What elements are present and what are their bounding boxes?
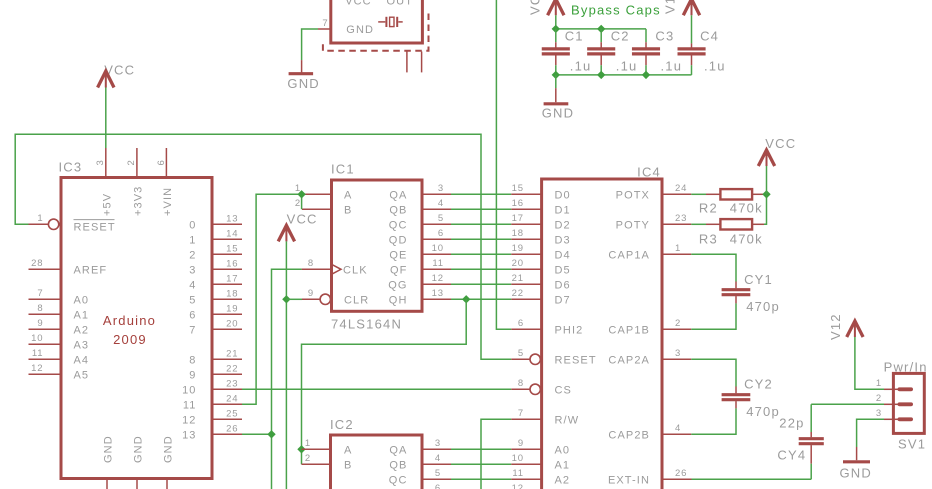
svg-text:R2: R2	[699, 201, 718, 216]
svg-text:470p: 470p	[746, 404, 780, 419]
oscillator OU1	[331, 0, 423, 43]
svg-text:10: 10	[31, 333, 43, 344]
svg-text:AREF: AREF	[74, 264, 108, 276]
svg-text:6: 6	[435, 483, 441, 489]
wire: EXT-IN to CY4	[692, 478, 812, 480]
svg-text:CAP2A: CAP2A	[608, 354, 650, 366]
svg-text:+3V3: +3V3	[132, 186, 144, 216]
svg-text:470k: 470k	[730, 201, 763, 216]
svg-text:7: 7	[189, 324, 196, 336]
IC3 right pins digital 8-13	[182, 348, 242, 441]
svg-text:QB: QB	[389, 459, 407, 471]
svg-text:IC2: IC2	[330, 417, 354, 432]
svg-text:7: 7	[518, 408, 524, 419]
svg-text:10: 10	[182, 384, 196, 396]
svg-text:RESET: RESET	[555, 354, 597, 366]
svg-text:GND: GND	[287, 76, 320, 91]
svg-text:QC: QC	[389, 474, 408, 486]
svg-text:A1: A1	[74, 309, 90, 321]
IC3 top pin names	[101, 186, 174, 216]
svg-text:21: 21	[512, 273, 524, 284]
svg-text:D1: D1	[555, 204, 571, 216]
svg-text:.1u: .1u	[704, 59, 726, 74]
svg-text:9: 9	[189, 369, 196, 381]
capacitor C3 .1u	[632, 29, 682, 75]
svg-text:.1u: .1u	[616, 59, 638, 74]
junction CLK/D13	[267, 430, 275, 438]
svg-text:7: 7	[37, 288, 43, 299]
junction QH branch	[462, 295, 470, 303]
svg-text:24: 24	[226, 393, 238, 404]
svg-text:D6: D6	[555, 279, 571, 291]
svg-text:A1: A1	[555, 459, 571, 471]
svg-text:GND: GND	[163, 435, 175, 463]
svg-text:PHI2: PHI2	[555, 324, 584, 336]
svg-text:3: 3	[675, 348, 681, 359]
svg-text:A: A	[344, 444, 352, 456]
svg-text:CAP2B: CAP2B	[608, 429, 650, 441]
svg-text:15: 15	[512, 183, 524, 194]
svg-text:8: 8	[37, 303, 43, 314]
IC4 right pins	[608, 183, 692, 486]
svg-text:13: 13	[432, 288, 444, 299]
svg-text:11: 11	[432, 258, 444, 269]
capacitor C1 .1u	[542, 29, 592, 75]
IC2 74LS164N	[330, 417, 422, 489]
svg-text:4: 4	[438, 198, 444, 209]
svg-text:21: 21	[226, 348, 238, 359]
svg-text:3: 3	[95, 159, 106, 165]
VCC symbol (left, to IC3 +5V)	[98, 63, 136, 88]
svg-text:0: 0	[189, 219, 196, 231]
svg-text:3: 3	[435, 438, 441, 449]
ground (SV1)	[840, 447, 873, 481]
svg-text:2009: 2009	[113, 332, 147, 347]
svg-text:12: 12	[31, 363, 43, 374]
svg-text:QH: QH	[389, 294, 408, 306]
svg-text:9: 9	[518, 438, 524, 449]
svg-text:6: 6	[156, 159, 167, 165]
svg-text:23: 23	[226, 378, 238, 389]
IC3 top pin stubs (3,2,6)	[106, 148, 167, 178]
svg-text:1: 1	[305, 438, 311, 449]
svg-text:GND: GND	[840, 466, 873, 481]
svg-text:6: 6	[518, 318, 524, 329]
svg-text:A2: A2	[555, 474, 571, 486]
svg-text:1: 1	[189, 234, 196, 246]
svg-text:C3: C3	[655, 29, 674, 44]
svg-text:9: 9	[308, 288, 314, 299]
svg-text:VCC: VCC	[287, 212, 318, 227]
IC4 SID	[542, 165, 662, 489]
svg-text:VCC: VCC	[765, 136, 796, 151]
svg-text:22p: 22p	[779, 416, 804, 431]
svg-text:20: 20	[512, 258, 524, 269]
svg-text:GND: GND	[346, 24, 374, 36]
ground (oscillator)	[287, 60, 320, 91]
svg-text:A0: A0	[555, 444, 571, 456]
crystal symbol	[378, 17, 403, 27]
svg-text:A4: A4	[74, 354, 90, 366]
IC4 pin PHI2	[511, 318, 583, 336]
svg-text:23: 23	[675, 213, 687, 224]
svg-text:1: 1	[37, 213, 43, 224]
svg-text:12: 12	[182, 414, 196, 426]
svg-text:19: 19	[226, 303, 238, 314]
svg-text:12: 12	[432, 273, 444, 284]
junction C1 top	[552, 25, 560, 33]
svg-text:IC4: IC4	[637, 165, 661, 180]
svg-text:A2: A2	[74, 324, 90, 336]
oscillator bottom stubs	[407, 52, 422, 73]
svg-text:74LS164N: 74LS164N	[331, 317, 402, 332]
svg-text:CLK: CLK	[343, 264, 368, 276]
svg-text:470p: 470p	[746, 299, 780, 314]
svg-text:16: 16	[226, 258, 238, 269]
ground (bypass)	[542, 88, 575, 120]
svg-text:10: 10	[432, 243, 444, 254]
svg-text:26: 26	[226, 423, 238, 434]
svg-text:5: 5	[189, 294, 196, 306]
svg-text:QA: QA	[389, 189, 407, 201]
svg-text:24: 24	[675, 183, 687, 194]
svg-text:EXT-IN: EXT-IN	[608, 474, 650, 486]
svg-text:5: 5	[518, 348, 524, 359]
junction IC2 A/B	[297, 445, 305, 453]
svg-text:GND: GND	[133, 435, 145, 463]
svg-text:GND: GND	[542, 106, 575, 121]
svg-text:22: 22	[226, 363, 238, 374]
svg-text:25: 25	[226, 408, 238, 419]
wire: VCC to C1	[555, 15, 557, 29]
capacitor CY2 470p	[691, 359, 780, 434]
capacitor C4 .1u	[678, 15, 726, 75]
svg-text:9: 9	[37, 318, 43, 329]
svg-text:CY1: CY1	[744, 272, 773, 287]
svg-text:3: 3	[876, 408, 882, 419]
wire: CLR branch	[286, 298, 302, 300]
IC3 pins A0-A5	[29, 288, 90, 381]
svg-text:D5: D5	[555, 264, 571, 276]
svg-text:19: 19	[512, 243, 524, 254]
IC3 right pins digital 0-7	[189, 213, 242, 336]
svg-text:16: 16	[512, 198, 524, 209]
svg-text:A0: A0	[74, 294, 90, 306]
junction C2 top	[597, 25, 605, 33]
IC3 pin RESET	[29, 213, 116, 234]
wire: SV1 pin2 to CY4	[811, 403, 884, 405]
wire: SV1 pin3 to GND	[857, 419, 884, 447]
svg-text:13: 13	[182, 429, 196, 441]
junction C3 bottom	[642, 71, 650, 79]
svg-text:CY2: CY2	[744, 377, 773, 392]
svg-text:VCC: VCC	[528, 0, 543, 15]
svg-text:8: 8	[308, 258, 314, 269]
connector SV1 Pwr/In	[884, 360, 928, 452]
svg-text:18: 18	[226, 288, 238, 299]
svg-text:A3: A3	[74, 339, 90, 351]
svg-text:2: 2	[305, 453, 311, 464]
svg-text:B: B	[344, 204, 352, 216]
IC4 left pins D0-D7	[511, 183, 570, 306]
IC1 74LS164N	[331, 162, 422, 332]
svg-text:CLR: CLR	[344, 294, 369, 306]
svg-text:D0: D0	[555, 189, 571, 201]
svg-text:D2: D2	[555, 219, 571, 231]
VCC symbol (middle, to IC1/IC2 CLR)	[278, 212, 317, 242]
svg-text:QG: QG	[388, 279, 407, 291]
svg-text:1: 1	[876, 378, 882, 389]
svg-text:17: 17	[512, 213, 524, 224]
wire: IC3 D11 to IC1 A/B	[242, 194, 302, 404]
svg-text:4: 4	[435, 453, 441, 464]
svg-text:8: 8	[518, 378, 524, 389]
wire: CLK net down to IC2	[271, 434, 273, 489]
IC3 pin AREF	[29, 258, 108, 276]
svg-text:12: 12	[512, 483, 524, 489]
svg-text:V12: V12	[828, 313, 843, 340]
SV1 pin 2	[876, 393, 913, 406]
svg-text:6: 6	[189, 309, 196, 321]
IC4 pin RESET	[511, 348, 596, 366]
svg-text:QC: QC	[389, 219, 408, 231]
svg-text:R3: R3	[699, 232, 718, 247]
svg-text:14: 14	[226, 228, 238, 239]
svg-text:3: 3	[438, 183, 444, 194]
svg-text:20: 20	[226, 318, 238, 329]
svg-text:V12: V12	[663, 0, 678, 14]
svg-text:13: 13	[226, 213, 238, 224]
wire: bypass rail to GND	[555, 75, 557, 88]
V12 symbol (bypass C4)	[663, 0, 700, 15]
svg-text:5: 5	[435, 468, 441, 479]
svg-text:11: 11	[512, 468, 524, 479]
wire: VCC to CLR net	[285, 241, 287, 489]
svg-text:CAP1B: CAP1B	[608, 324, 650, 336]
svg-text:2: 2	[876, 393, 882, 404]
svg-text:POTY: POTY	[616, 219, 650, 231]
svg-text:10: 10	[512, 453, 524, 464]
svg-text:D3: D3	[555, 234, 571, 246]
wire: PHI2 net	[496, 0, 511, 329]
svg-text:8: 8	[189, 354, 196, 366]
svg-text:CAP1A: CAP1A	[608, 249, 650, 261]
IC1 pin CLR	[302, 288, 369, 306]
svg-text:QD: QD	[389, 234, 408, 246]
svg-text:Pwr/In: Pwr/In	[884, 360, 928, 375]
svg-text:C2: C2	[611, 29, 630, 44]
resistor R2 470k	[691, 189, 766, 215]
svg-text:2: 2	[126, 159, 137, 165]
svg-text:470k: 470k	[730, 232, 763, 247]
junction IC1 A/B	[297, 190, 305, 198]
junction CLR	[282, 295, 290, 303]
capacitor C2 .1u	[587, 29, 637, 75]
IC1 output pins QA-QH	[388, 183, 451, 306]
wire: QH to IC2 A/B	[302, 299, 467, 464]
svg-text:C4: C4	[700, 29, 719, 44]
resistor R3 470k	[691, 219, 764, 246]
svg-text:.1u: .1u	[570, 59, 592, 74]
svg-text:C1: C1	[565, 29, 584, 44]
svg-text:26: 26	[675, 468, 687, 479]
svg-text:D7: D7	[555, 294, 571, 306]
svg-text:QB: QB	[389, 204, 407, 216]
svg-text:GND: GND	[103, 435, 115, 463]
oscillator pin 7 stub	[318, 18, 331, 29]
svg-text:15: 15	[226, 243, 238, 254]
wire: IC3 D10 to IC4 CS	[242, 388, 511, 390]
capacitor CY1 470p	[691, 254, 780, 329]
wire: VCC to IC3 pin3	[105, 88, 107, 149]
svg-text:Bypass Caps: Bypass Caps	[571, 3, 661, 18]
IC3 Arduino 2009	[59, 160, 213, 479]
svg-text:3: 3	[189, 264, 196, 276]
svg-text:RESET: RESET	[74, 222, 116, 234]
svg-text:2: 2	[189, 249, 196, 261]
IC2 output pins QA-QD	[389, 438, 451, 489]
wire: QA-QH to D0-D7 rows	[451, 194, 511, 299]
svg-text:IC1: IC1	[331, 162, 355, 177]
IC3 top pin numbers	[95, 159, 167, 165]
svg-text:18: 18	[512, 228, 524, 239]
svg-text:CS: CS	[555, 384, 572, 396]
IC4 pin R/W	[511, 408, 579, 426]
oscillator dashed can outline	[323, 14, 429, 51]
svg-text:B: B	[344, 459, 352, 471]
svg-text:POTX: POTX	[616, 189, 650, 201]
svg-text:.1u: .1u	[661, 59, 683, 74]
junction C1 bottom	[552, 71, 560, 79]
svg-text:17: 17	[226, 273, 238, 284]
svg-text:A: A	[344, 189, 352, 201]
wire: IC3 D13 to CLK net	[242, 269, 302, 434]
wire: VCC to R2 node	[766, 166, 768, 194]
IC4 pins A0-A3	[511, 438, 570, 489]
svg-text:4: 4	[675, 423, 681, 434]
svg-text:QF: QF	[390, 264, 407, 276]
VCC symbol (right)	[758, 136, 796, 166]
wire: V12 to SV1 pin1	[855, 337, 884, 389]
svg-text:A5: A5	[74, 369, 90, 381]
svg-text:4: 4	[189, 279, 196, 291]
svg-text:6: 6	[438, 228, 444, 239]
svg-text:CY4: CY4	[777, 448, 806, 463]
svg-text:2: 2	[675, 318, 681, 329]
svg-text:1: 1	[675, 243, 681, 254]
junction R2/R3/VCC	[762, 190, 770, 198]
wire: R3 to VCC node	[764, 194, 767, 224]
svg-text:+VIN: +VIN	[162, 187, 174, 216]
IC1 pin CLK	[302, 258, 368, 276]
IC2 pins A,B	[302, 438, 353, 471]
IC1 pins A,B	[295, 183, 353, 216]
svg-text:2: 2	[295, 198, 301, 209]
wire: RESET net (IC3 pin1 to IC4 pin5)	[15, 134, 511, 359]
svg-text:D4: D4	[555, 249, 571, 261]
svg-text:VCC: VCC	[345, 0, 372, 7]
svg-text:22: 22	[512, 288, 524, 299]
SV1 pin 1	[876, 378, 913, 391]
V12 symbol (SV1)	[828, 313, 863, 340]
svg-text:7: 7	[322, 18, 328, 29]
svg-text:OUT: OUT	[387, 0, 414, 7]
svg-text:IC3: IC3	[59, 160, 83, 175]
wire: R/W net	[481, 419, 511, 489]
svg-text:+5V: +5V	[101, 193, 113, 216]
svg-text:QA: QA	[389, 444, 407, 456]
svg-text:Arduino: Arduino	[103, 313, 156, 328]
junction C2 bottom	[597, 71, 605, 79]
svg-text:11: 11	[32, 348, 44, 359]
wire: osc GND	[302, 29, 318, 60]
capacitor CY4 22p	[777, 404, 823, 479]
IC3 bottom GND pins	[103, 435, 175, 489]
svg-text:QE: QE	[389, 249, 407, 261]
wire: IC2 QA-QC to IC4 A0-A2	[451, 449, 511, 479]
wire: bypass top rail	[556, 28, 646, 30]
VCC symbol (bypass)	[528, 0, 565, 15]
svg-text:5: 5	[438, 213, 444, 224]
SV1 pin 3	[876, 408, 913, 421]
wire: bypass bottom rail	[556, 74, 692, 76]
IC4 pin CS	[511, 378, 572, 396]
svg-text:R/W: R/W	[555, 414, 580, 426]
svg-text:11: 11	[183, 399, 197, 411]
svg-text:28: 28	[31, 258, 43, 269]
svg-text:SV1: SV1	[898, 437, 926, 452]
